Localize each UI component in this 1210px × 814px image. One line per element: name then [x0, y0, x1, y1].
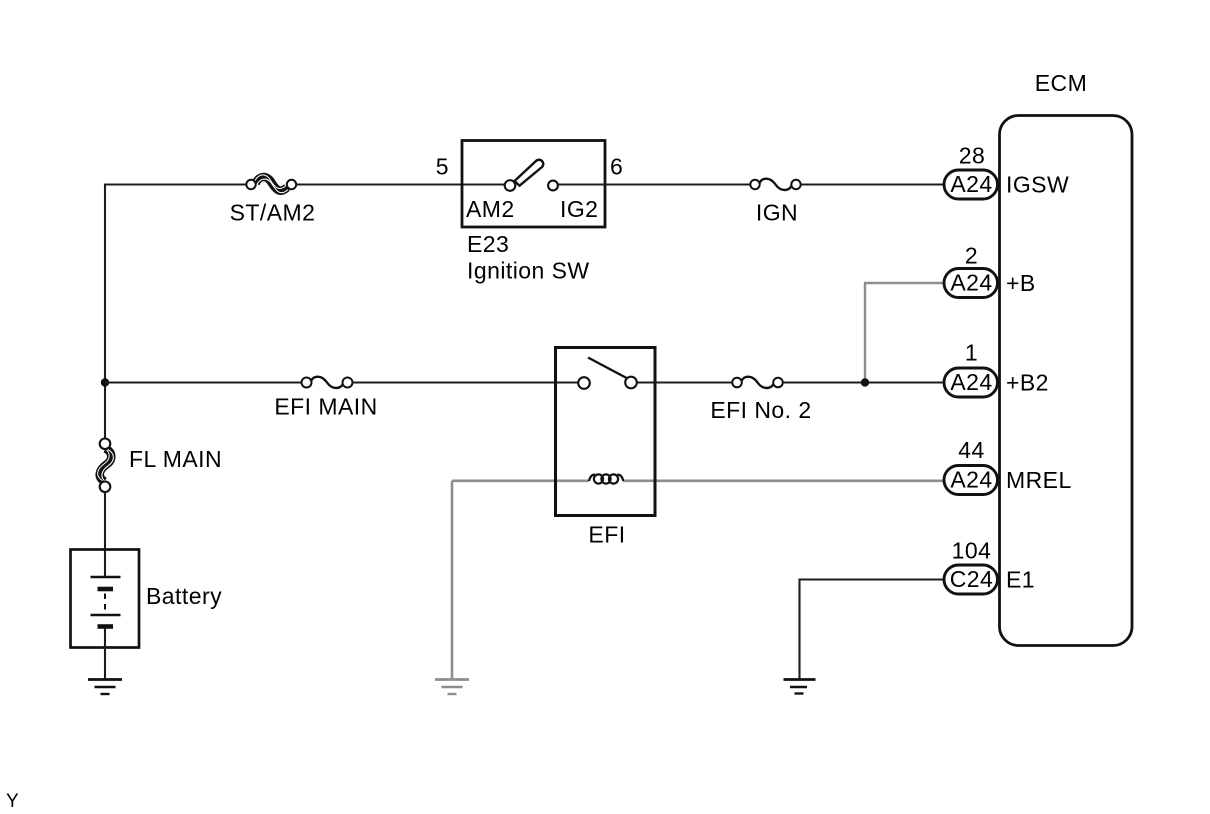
svg-text:MREL: MREL	[1006, 467, 1072, 493]
fusible link FL MAIN (vertical)	[98, 439, 222, 493]
wire: battery positive top horizontal (node to ST/AM2)	[105, 183, 246, 185]
fuse EFI No. 2	[710, 377, 811, 423]
fuse EFI MAIN	[274, 377, 377, 420]
svg-text:AM2: AM2	[466, 196, 515, 222]
EFI relay box	[556, 348, 656, 548]
svg-text:+B2: +B2	[1006, 370, 1049, 396]
connector A24 pin 28 IGSW	[944, 143, 1069, 200]
svg-text:Ignition SW: Ignition SW	[467, 258, 590, 284]
ground: E1	[784, 680, 816, 694]
svg-text:EFI MAIN: EFI MAIN	[274, 394, 377, 420]
wire: gray branch up to ECM pin +B	[864, 283, 944, 383]
svg-text:EFI No. 2: EFI No. 2	[710, 397, 811, 423]
svg-text:FL MAIN: FL MAIN	[129, 446, 222, 472]
wire: gray ground riser for relay coil	[451, 481, 454, 679]
svg-text:E1: E1	[1006, 567, 1035, 593]
svg-text:1: 1	[965, 340, 978, 366]
wire: fuse IGN to ECM pin IGSW	[801, 183, 944, 185]
svg-text:6: 6	[610, 154, 623, 180]
svg-text:Battery: Battery	[146, 583, 222, 609]
svg-text:EFI: EFI	[588, 522, 625, 548]
svg-text:C24: C24	[950, 566, 994, 592]
svg-text:ECM: ECM	[1035, 70, 1087, 96]
svg-text:A24: A24	[950, 171, 992, 197]
svg-text:IGN: IGN	[756, 200, 798, 226]
connector A24 pin 44 MREL	[944, 437, 1072, 495]
svg-text:A24: A24	[950, 270, 992, 296]
relay switch contacts and blade	[578, 358, 637, 389]
svg-text:2: 2	[965, 243, 978, 269]
svg-text:IGSW: IGSW	[1006, 172, 1069, 198]
wire: gray MREL wire from ground riser to relay coil	[452, 479, 589, 482]
wire: gray relay coil to ECM pin MREL	[623, 479, 944, 482]
wire: ECM pin E1 to ground	[800, 580, 945, 680]
ignition switch contacts and lever	[505, 160, 558, 191]
wire: relay to fuse EFI No. 2	[637, 381, 732, 383]
fuse IGN	[750, 179, 800, 226]
svg-text:+B: +B	[1006, 270, 1036, 296]
page code Y	[6, 791, 19, 812]
svg-text:44: 44	[958, 437, 984, 463]
ECM box	[1000, 70, 1133, 646]
svg-text:5: 5	[436, 154, 449, 180]
svg-text:A24: A24	[950, 467, 992, 493]
node: junction of battery feed and EFI MAIN wire	[101, 378, 109, 386]
wire: ST/AM2 to ignition switch	[296, 183, 505, 185]
ignition switch E23 box	[436, 141, 624, 284]
wire: FL MAIN to battery	[104, 492, 106, 576]
svg-text:ST/AM2: ST/AM2	[230, 200, 316, 226]
connector C24 pin 104 E1	[944, 538, 1035, 595]
svg-text:104: 104	[952, 538, 992, 564]
fusible link ST/AM2	[230, 175, 316, 226]
wire: left vertical from top wire down to FL MAIN	[104, 184, 106, 439]
svg-text:IG2: IG2	[560, 196, 598, 222]
svg-text:Y: Y	[6, 791, 19, 812]
ground: relay coil (gray)	[435, 680, 469, 695]
svg-text:A24: A24	[950, 369, 992, 395]
connector A24 pin 2 +B	[944, 243, 1036, 298]
node: junction on +B2 wire	[861, 378, 869, 386]
connector A24 pin 1 +B2	[944, 340, 1049, 398]
battery	[71, 550, 223, 680]
ground: battery	[88, 680, 122, 695]
svg-text:E23: E23	[467, 231, 509, 257]
svg-text:28: 28	[959, 143, 985, 169]
wire: fuse EFI MAIN to EFI relay	[353, 381, 579, 383]
relay coil (inductor)	[589, 474, 623, 483]
wire: junction to fuse EFI MAIN	[105, 381, 302, 383]
wire: ignition switch to fuse IGN	[558, 183, 750, 185]
wire: fuse EFI No. 2 to ECM pin +B2	[783, 381, 944, 383]
